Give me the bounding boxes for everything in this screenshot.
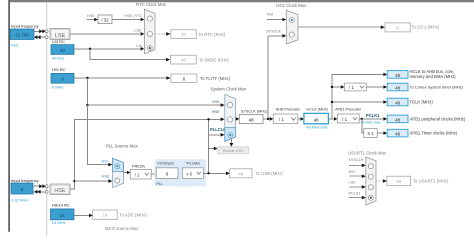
- box X1 multiplier: [364, 129, 377, 138]
- wire LSI to IWDG: [90, 49, 170, 62]
- wire OSC32 in: [34, 29, 48, 33]
- wire HSI stub to I2C1 mux: [267, 12, 287, 21]
- svg-text:48 MHz max: 48 MHz max: [306, 126, 327, 130]
- output To RTC: [171, 30, 226, 39]
- oscillator LSE: [50, 29, 70, 40]
- svg-text:To I2C1 (MHz): To I2C1 (MHz): [412, 25, 440, 30]
- svg-text:HSE: HSE: [87, 14, 95, 18]
- svg-text:To IWDG (KHz): To IWDG (KHz): [199, 57, 229, 62]
- wire PLL out to USB: [203, 172, 229, 176]
- svg-text:SYSCLK: SYSCLK: [349, 158, 364, 162]
- box HCLK AHB out: [387, 69, 456, 79]
- svg-text:Enable CSS: Enable CSS: [223, 149, 244, 153]
- svg-text:HSE: HSE: [212, 109, 220, 114]
- svg-text:LSE: LSE: [134, 28, 142, 32]
- dropdown APB1 prescaler: [337, 114, 359, 123]
- svg-text:SYSCLK: SYSCLK: [266, 29, 281, 33]
- wire OSC32 out: [34, 35, 48, 39]
- wire SYSCLK riser to I2C1 mux: [266, 29, 286, 119]
- mux USART1: [366, 157, 376, 205]
- svg-text:HSE: HSE: [54, 188, 66, 194]
- svg-text:PCLK1: PCLK1: [366, 113, 380, 118]
- output To ADC: [93, 210, 148, 219]
- wire HSI14 to ADC: [74, 214, 93, 218]
- wire OSC out: [33, 190, 48, 194]
- wire CSS: [230, 139, 234, 147]
- svg-text:14 MHz: 14 MHz: [52, 220, 66, 225]
- svg-text:/ 1: / 1: [349, 85, 354, 90]
- svg-text:48 MHz max: 48 MHz max: [361, 121, 381, 125]
- svg-text:48: 48: [395, 73, 400, 78]
- svg-text:HSI RC: HSI RC: [52, 67, 66, 72]
- svg-text:I2C1 Clock Mux: I2C1 Clock Mux: [276, 3, 307, 8]
- svg-text:PLLCLK: PLLCLK: [210, 127, 226, 132]
- output To I2C1: [385, 23, 440, 32]
- svg-text:To FLITF (MHz): To FLITF (MHz): [200, 76, 231, 81]
- wire PREDiv to VCO: [151, 173, 156, 175]
- output To USART1: [387, 176, 449, 185]
- wire X1 to timer box: [377, 131, 387, 135]
- svg-text:8 MHz: 8 MHz: [52, 84, 64, 89]
- svg-text:HSI14 RC: HSI14 RC: [52, 203, 70, 208]
- svg-text:14: 14: [103, 213, 108, 218]
- wire HCLK to APB1: [328, 117, 337, 121]
- svg-text:14: 14: [60, 213, 65, 218]
- svg-text:To RTC (KHz): To RTC (KHz): [199, 32, 226, 37]
- box SYSCLK: [239, 115, 263, 124]
- left panel edge: [8, 0, 10, 232]
- svg-text:RTC Clock Mux: RTC Clock Mux: [136, 2, 167, 7]
- label HSE stub to /32: [87, 14, 98, 21]
- oscillator HSE: [50, 184, 70, 195]
- svg-text:KHz: KHz: [11, 42, 19, 47]
- svg-text:40 kHz: 40 kHz: [52, 55, 64, 60]
- dropdown Cortex prescaler: [344, 83, 366, 91]
- block PLL: [155, 159, 206, 186]
- box VCOInput: [156, 168, 178, 179]
- wire HCLK to FCLK: [331, 100, 387, 104]
- wire AHB to HCLK: [298, 117, 304, 121]
- svg-text:48: 48: [238, 171, 243, 176]
- svg-text:HSI: HSI: [102, 160, 108, 164]
- wire HSI to system mux: [86, 78, 224, 107]
- svg-text:MCO source Mux: MCO source Mux: [105, 226, 139, 231]
- svg-text:USART1 Clock Mux: USART1 Clock Mux: [348, 151, 387, 156]
- svg-text:To Cortex System timer (MHz): To Cortex System timer (MHz): [410, 85, 464, 90]
- svg-text:*PLLMul: *PLLMul: [186, 162, 200, 166]
- svg-text:AHB Prescaler: AHB Prescaler: [276, 108, 301, 112]
- svg-text:32.768: 32.768: [15, 33, 29, 38]
- svg-text:PLL Source Mux: PLL Source Mux: [106, 144, 138, 149]
- wire SYSCLK to AHB: [263, 117, 273, 121]
- node HSI14 RC: [51, 203, 75, 226]
- svg-text:HSI: HSI: [349, 170, 355, 174]
- svg-text:X 1: X 1: [367, 131, 374, 136]
- svg-text:Input frequency: Input frequency: [11, 24, 39, 29]
- svg-text:LSE: LSE: [349, 181, 357, 185]
- svg-text:APB1 Prescaler: APB1 Prescaler: [335, 108, 362, 112]
- top panel edge: [10, 0, 474, 2]
- svg-text:VCOInput: VCOInput: [157, 162, 173, 166]
- wire HCLK to cortex prescaler: [331, 85, 345, 89]
- svg-text:LSI RC: LSI RC: [52, 39, 65, 44]
- wire HSI to FLITF: [74, 76, 170, 80]
- svg-text:48: 48: [395, 85, 400, 90]
- divider /32: [98, 15, 112, 24]
- svg-text:memory and DMA (MHz): memory and DMA (MHz): [410, 74, 457, 79]
- svg-text:/ 1: / 1: [279, 117, 284, 122]
- dropdown PLLMul: [183, 168, 204, 179]
- box Cortex timer out: [387, 83, 464, 91]
- column divider line: [45, 2, 48, 236]
- wire LSE to RTC mux: [70, 28, 144, 35]
- wire I2C1 mux output: [298, 25, 385, 29]
- output To USB: [230, 169, 284, 178]
- svg-text:To USART1 (MHz): To USART1 (MHz): [413, 179, 449, 184]
- box FCLK out: [387, 98, 433, 106]
- svg-text:To USB (MHz): To USB (MHz): [256, 171, 284, 176]
- mux System: [225, 94, 236, 141]
- wire HSE_RTC: [112, 14, 144, 21]
- svg-text:40: 40: [181, 58, 186, 63]
- node LSI RC: [51, 39, 74, 60]
- svg-text:x 6: x 6: [186, 172, 192, 177]
- svg-text:SYSCLK (MHz): SYSCLK (MHz): [241, 109, 268, 113]
- mux RTC: [144, 9, 155, 54]
- button Enable CSS: [218, 147, 249, 154]
- svg-text:48: 48: [249, 117, 255, 122]
- svg-text:48: 48: [314, 117, 320, 122]
- svg-text:System Clock Mux: System Clock Mux: [211, 87, 247, 92]
- svg-text:40: 40: [181, 32, 186, 37]
- wire PCLK1 stub usart: [349, 191, 366, 199]
- wire branch to X1: [362, 119, 364, 133]
- node LSE input frequency: [10, 24, 39, 48]
- wire SYSCLK stub usart: [349, 158, 366, 167]
- svg-text:HSI: HSI: [212, 99, 219, 104]
- wire LSE stub usart: [349, 181, 366, 189]
- svg-text:APB1 peripheral clocks (MHz): APB1 peripheral clocks (MHz): [410, 116, 466, 121]
- svg-text:48: 48: [395, 100, 400, 105]
- node HSI RC: [51, 67, 74, 89]
- wire HSE to PLL mux: [74, 179, 112, 183]
- svg-text:LSE: LSE: [55, 33, 66, 39]
- dropdown PREDiv: [130, 169, 151, 179]
- svg-text:APB1 Timer clocks (MHz): APB1 Timer clocks (MHz): [410, 131, 458, 136]
- node HSE input frequency: [11, 178, 39, 203]
- svg-text:/ 1: / 1: [342, 117, 347, 122]
- svg-text:PREDiv: PREDiv: [132, 165, 145, 169]
- svg-text:HSE_RTC: HSE_RTC: [124, 14, 142, 18]
- wire HSE to system mux: [70, 118, 225, 190]
- svg-text:PLL: PLL: [156, 181, 164, 186]
- wire LSI to RTC mux: [74, 47, 144, 51]
- output To FLITF: [171, 74, 231, 83]
- wire HCLK riser: [332, 73, 387, 119]
- mux I2C1: [286, 10, 298, 44]
- svg-text:HSI: HSI: [267, 12, 273, 16]
- wire sysmux to SYSCLK box: [236, 117, 240, 121]
- svg-text:HCLK (MHz): HCLK (MHz): [306, 108, 328, 112]
- box APB1 peripheral out: [387, 115, 466, 123]
- box HCLK: [304, 113, 329, 129]
- box APB1 timer out: [387, 129, 458, 137]
- svg-text:48: 48: [396, 179, 401, 184]
- svg-text:Input frequency: Input frequency: [11, 178, 39, 183]
- svg-text:1-32 MHz: 1-32 MHz: [11, 197, 28, 202]
- wire OSC in: [33, 184, 48, 188]
- wire RTC mux output: [155, 32, 170, 36]
- wire cortex to box: [366, 85, 387, 89]
- wire APB1 to periph box: [359, 117, 387, 121]
- wire PLLCLK riser: [207, 118, 224, 173]
- output To IWDG: [170, 55, 229, 64]
- wire HSI to PLL mux: [87, 105, 112, 166]
- svg-text:PCLK1: PCLK1: [349, 191, 361, 195]
- svg-text:HSE: HSE: [102, 175, 110, 179]
- wire USART1 mux out: [376, 179, 387, 183]
- wire PLL mux out: [124, 171, 131, 175]
- wire HSI stub usart: [349, 170, 366, 178]
- svg-text:LSI: LSI: [136, 44, 142, 48]
- svg-text:FCLK (MHz): FCLK (MHz): [410, 100, 434, 105]
- svg-text:48: 48: [395, 117, 400, 122]
- svg-text:/ 1: / 1: [135, 173, 140, 178]
- svg-text:40: 40: [60, 48, 65, 53]
- dropdown AHB prescaler: [273, 114, 298, 124]
- svg-text:/ 32: / 32: [101, 18, 109, 23]
- wire CSS from HSE line: [209, 147, 218, 151]
- svg-text:48: 48: [395, 132, 400, 137]
- svg-text:To ADC (MHz): To ADC (MHz): [119, 212, 147, 217]
- mux PLL source: [113, 158, 124, 187]
